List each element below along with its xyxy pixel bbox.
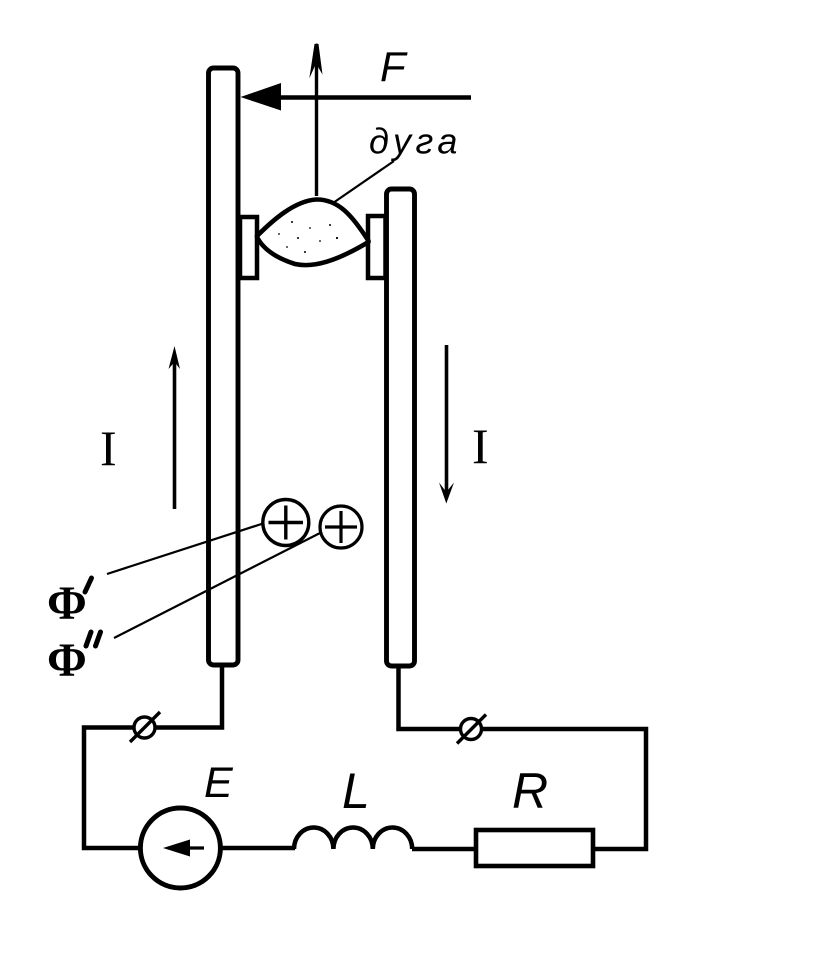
arc stipple dots (278, 221, 338, 253)
up arrow above arc (315, 52, 318, 196)
svg-text:L: L (342, 763, 370, 819)
svg-text:I: I (100, 420, 117, 476)
wire: L to R (412, 847, 477, 852)
force arrow F (270, 95, 471, 100)
source E arrow (186, 846, 204, 849)
svg-text:Φ: Φ (47, 577, 87, 630)
connector ø left (134, 717, 155, 738)
arc blob (дуга) (257, 199, 369, 266)
left electrode (209, 68, 239, 665)
svg-text:F: F (380, 43, 408, 90)
svg-text:R: R (512, 763, 548, 819)
leader line to flux circle 1 (107, 524, 263, 575)
current arrow left (up) (173, 360, 177, 509)
source E circle (140, 808, 220, 888)
leader line to flux circle 2 (114, 532, 322, 638)
wire: left electrode lead (84, 665, 222, 848)
flux circle 1 (263, 500, 309, 546)
дуга leader line (333, 161, 394, 203)
wire: E to L (220, 846, 295, 851)
svg-text:дуга: дуга (369, 121, 462, 162)
flux circle 2 (320, 506, 362, 548)
connector ø right (461, 719, 482, 740)
svg-text:Φ: Φ (47, 634, 87, 687)
right contact pad (368, 216, 386, 278)
right electrode (387, 189, 415, 666)
current arrow right (down) (445, 345, 449, 497)
svg-text:E: E (204, 759, 234, 807)
resistor R (476, 830, 593, 866)
inductor L (294, 828, 412, 850)
svg-text:I: I (472, 418, 489, 474)
left contact pad (240, 217, 257, 278)
wire: R to right side (399, 666, 647, 849)
